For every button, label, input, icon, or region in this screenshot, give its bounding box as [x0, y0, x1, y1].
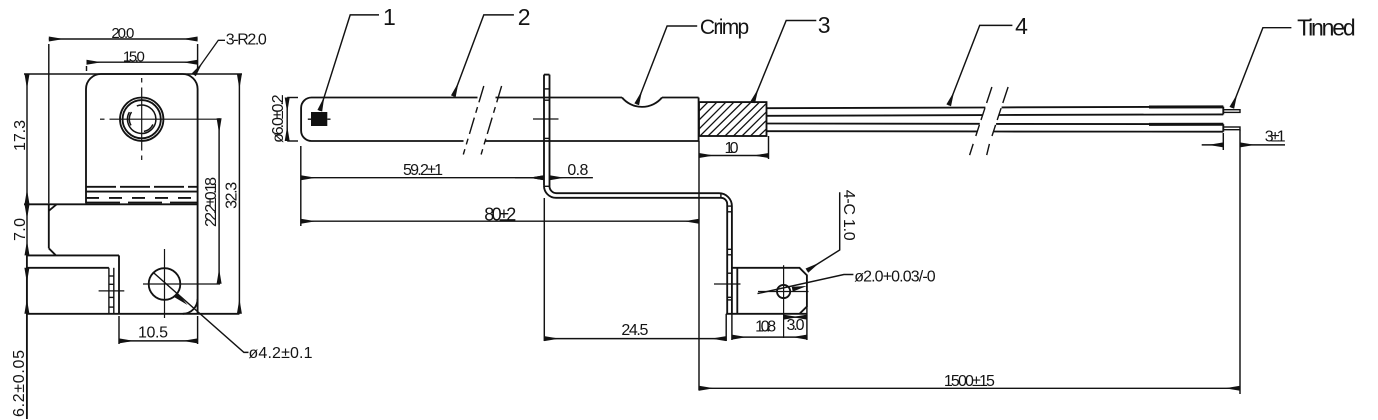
dimension 10.8: [732, 307, 807, 341]
bracket front view: top plate outline: [86, 74, 198, 314]
wire break lines: [970, 87, 1009, 155]
svg-text:3-R2.0: 3-R2.0: [226, 32, 267, 49]
svg-text:20.0: 20.0: [111, 25, 134, 42]
svg-text:2: 2: [518, 4, 531, 30]
bracket front view: bend line band: [86, 187, 198, 203]
mounting tab outline: [726, 268, 807, 314]
bracket front view: corner radius R2.0 arc: [183, 299, 198, 314]
tinned tip 2: [1223, 127, 1240, 130]
svg-text:7.0: 7.0: [12, 218, 29, 241]
svg-text:10: 10: [725, 140, 739, 157]
dimension 22.2: [218, 118, 220, 283]
svg-text:59.2±1: 59.2±1: [403, 162, 443, 179]
leader diameter 2.0: [758, 275, 854, 294]
svg-text:0.8: 0.8: [567, 162, 588, 179]
leader callout 2: [453, 15, 514, 96]
bracket plate side view: [544, 75, 550, 187]
bracket front view: hatched edge strip: [109, 268, 114, 314]
leader tinned: [1232, 28, 1292, 108]
bracket front view: web left edge with reliefs: [49, 204, 57, 255]
svg-text:3: 3: [818, 12, 831, 38]
extension line body right edge long: [698, 141, 700, 391]
svg-text:1500±15: 1500±15: [944, 373, 995, 390]
svg-text:4: 4: [1015, 13, 1028, 39]
sensor mounting hole: outer circle: [120, 98, 163, 141]
svg-text:4-C 1.0: 4-C 1.0: [840, 190, 857, 241]
dimension 20.0: [49, 39, 198, 203]
tab hole centerlines: [758, 265, 809, 338]
sensing element (black): [311, 112, 327, 126]
bracket front view: lower flange bottom edge: [27, 313, 240, 315]
mounting hole 4.2 circle: [149, 268, 181, 300]
dimension 3.0: [784, 316, 807, 318]
bracket front view: step horizontal edge: [27, 254, 119, 256]
svg-text:ø6.0±0.2: ø6.0±0.2: [270, 94, 287, 143]
bracket foot bend 1: [544, 186, 721, 198]
svg-text:3.0: 3.0: [787, 317, 805, 334]
sensor body top edge right of notch: [662, 97, 699, 99]
dimension 6.0 diameter: [287, 98, 298, 142]
tab hole 2.0: [777, 285, 790, 298]
dimension 0.8: [515, 177, 593, 179]
dimension 32.3: [238, 74, 240, 314]
dimension 24.5: [544, 198, 726, 341]
svg-text:ø2.0+0.03/-0: ø2.0+0.03/-0: [854, 268, 936, 285]
dimension 10 crimp: [699, 136, 769, 159]
mounting hole 4.2 centerline horizontal: [143, 283, 220, 285]
svg-text:1: 1: [383, 4, 396, 30]
leader 3-R2.0: [194, 40, 225, 75]
leader callout 1: [320, 15, 379, 111]
dimension 59.2: [301, 146, 544, 226]
sensor mounting hole: inner circle: [123, 100, 161, 138]
svg-text:22.2±0.18: 22.2±0.18: [203, 177, 220, 227]
wire 1: [767, 107, 1224, 116]
svg-text:24.5: 24.5: [621, 322, 648, 339]
svg-text:10.8: 10.8: [755, 319, 776, 336]
wire 1 jacket end thick segment: [1149, 105, 1223, 108]
dimension 1500: [699, 387, 1240, 389]
svg-text:80±2: 80±2: [484, 205, 516, 225]
dimension 15.0: [87, 62, 198, 71]
dimension 3 tinned: [1202, 133, 1285, 150]
svg-text:Tinned: Tinned: [1297, 15, 1356, 41]
bracket front view: step right vertical edge: [118, 255, 120, 313]
svg-text:ø4.2±0.1: ø4.2±0.1: [249, 345, 313, 362]
dimension 10.5: [119, 316, 198, 344]
svg-text:3±1: 3±1: [1265, 129, 1286, 146]
bracket bend 2 to vertical: [719, 193, 732, 314]
svg-text:15.0: 15.0: [123, 49, 145, 66]
mounting hole 4.2 centerline vertical: [164, 249, 166, 318]
leader diameter 4.2: [153, 273, 248, 353]
svg-text:17.3: 17.3: [12, 120, 29, 151]
crimp notch arc: [622, 98, 662, 107]
bracket front view: bottom edge of top plate: [24, 203, 198, 205]
extension line tinned end long: [1239, 130, 1241, 394]
sensor mounting hole: retaining arcs: [127, 105, 155, 133]
dimension 80: [301, 220, 699, 222]
leader 4-C1.0: [807, 192, 840, 270]
bracket front view: lower flange left edge: [26, 255, 28, 419]
dimension 7.0: [26, 204, 28, 255]
bracket plate centerline tick: [533, 118, 559, 120]
sensor hole centerline horizontal: [100, 118, 219, 120]
leader crimp: [637, 26, 698, 104]
leader callout 3: [753, 21, 817, 103]
svg-text:Crimp: Crimp: [700, 16, 749, 39]
bracket front view: lower flange top edge: [27, 267, 109, 269]
svg-text:6.2±0.05: 6.2±0.05: [11, 350, 28, 417]
tinned tip 1: [1223, 110, 1240, 113]
svg-text:10.5: 10.5: [138, 325, 168, 342]
bracket plate tick marks: [544, 89, 550, 186]
sensor body outline: [301, 98, 698, 142]
bracket hole centerline tick at vertical section: [714, 283, 741, 285]
crimp hatched block: [699, 102, 767, 136]
wire 2: [767, 124, 1224, 132]
dimension 17.3: [24, 74, 242, 204]
sensor hole centerline vertical: [141, 78, 143, 160]
leader callout 4: [949, 25, 1013, 105]
dimension 6.2: [26, 268, 28, 314]
sensing element side ticks: [308, 118, 331, 120]
wire 2 jacket end thick segment: [1149, 123, 1223, 126]
bracket front view: flange centerline tick: [99, 290, 125, 292]
body break lines: [463, 86, 501, 155]
svg-text:32.3: 32.3: [224, 182, 241, 209]
bracket vertical section ticks: [727, 212, 732, 300]
